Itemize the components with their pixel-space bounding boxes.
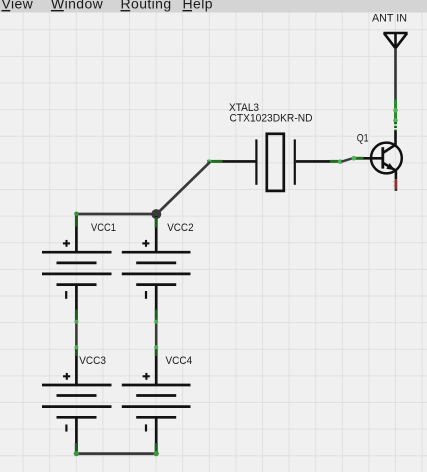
battery VCC2 <box>122 216 194 310</box>
Q1 emitter lead with arrow <box>383 163 396 171</box>
Q1 collector lead <box>383 144 396 153</box>
svg-text:VCC1: VCC1 <box>91 222 116 234</box>
menu item View <box>2 0 34 11</box>
svg-text:Q1: Q1 <box>357 132 369 144</box>
antenna symbol <box>383 33 407 49</box>
VCC4 negative pin <box>155 417 158 443</box>
VCC4 plus mark <box>143 375 150 377</box>
svg-text:VCC2: VCC2 <box>167 222 193 234</box>
wire ANT IN to Q1 collector <box>394 48 397 100</box>
battery VCC3 <box>42 355 112 443</box>
VCC2 plus mark <box>142 242 149 244</box>
antenna ANT IN <box>372 13 408 49</box>
Q1 body circle <box>371 143 402 174</box>
Q1 base pin <box>363 157 383 160</box>
VCC3 negative pin <box>75 417 78 443</box>
wire XTAL3 to Q1 base (diagonal) <box>342 158 354 162</box>
battery VCC4 <box>122 355 192 443</box>
VCC3 plates <box>42 384 112 387</box>
VCC1 negative pin <box>75 285 78 310</box>
svg-text:ANT IN: ANT IN <box>372 13 407 25</box>
junction node dot <box>151 209 161 219</box>
VCC4 positive pin <box>155 356 158 385</box>
VCC2 minus mark <box>145 291 147 299</box>
VCC2 negative pin <box>155 285 158 310</box>
VCC2 positive pin <box>155 216 158 252</box>
wire VCC2 to VCC4 <box>154 310 158 357</box>
wire segment to Q1 collector pin <box>394 131 397 146</box>
menu bar <box>0 0 427 13</box>
node collector net (green connection marks) <box>393 99 398 131</box>
svg-text:View: View <box>2 0 34 11</box>
wire VCC1 to VCC3 <box>74 310 78 357</box>
XTAL3 body <box>267 134 284 191</box>
VCC3 positive pin <box>75 356 78 385</box>
node VCC1 positive (green connection) <box>74 212 78 227</box>
wire VCC3 to VCC4 (bottom net) <box>74 443 159 456</box>
node XTAL3 pin 2 (green connection) <box>330 159 343 164</box>
VCC3 plus mark <box>63 375 70 377</box>
svg-text:VCC3: VCC3 <box>79 355 106 367</box>
VCC1 plus mark <box>63 242 70 244</box>
svg-text:Help: Help <box>183 0 213 11</box>
wire XTAL3 pin 1 to junction (diagonal) <box>157 162 211 214</box>
XTAL3 pin 2 lead <box>296 160 330 163</box>
node XTAL3 pin 1 (green connection) <box>207 159 223 163</box>
menu item Help <box>183 0 213 11</box>
XTAL3 right plate <box>294 139 296 184</box>
wire junction to VCC1 <box>76 213 156 216</box>
svg-text:VCC4: VCC4 <box>166 355 193 367</box>
node VCC2 positive (green connection) <box>155 217 158 228</box>
battery VCC1 <box>42 215 116 310</box>
menu item Routing <box>121 0 172 11</box>
menu item Window <box>51 0 104 11</box>
VCC2 plates <box>122 251 191 254</box>
svg-text:Routing: Routing <box>121 0 172 11</box>
node Q1 base (green connection) <box>352 156 364 161</box>
VCC4 minus mark <box>145 424 147 431</box>
VCC1 minus mark <box>65 291 67 299</box>
svg-text:Window: Window <box>51 0 104 11</box>
VCC4 plates <box>122 384 191 387</box>
XTAL3 left plate <box>255 139 257 184</box>
XTAL3 pin 1 lead <box>222 160 256 163</box>
VCC1 plates <box>42 251 112 254</box>
crystal XTAL3 <box>222 102 330 191</box>
VCC3 minus mark <box>65 425 67 432</box>
VCC1 positive pin <box>75 215 78 252</box>
svg-text:CTX1023DKR-ND: CTX1023DKR-ND <box>230 112 313 124</box>
transistor Q1 <box>357 132 402 179</box>
emitter wire (red net stub) <box>393 179 396 191</box>
Q1 base bar <box>381 147 384 168</box>
